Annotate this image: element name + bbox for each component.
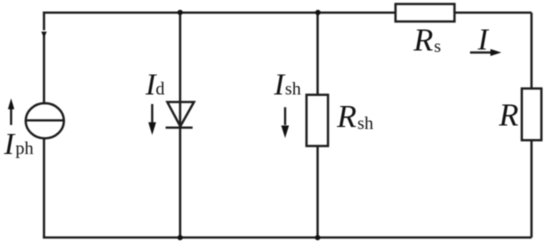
svg-text:sh: sh [285,79,301,99]
svg-text:d: d [156,79,165,99]
svg-text:R: R [413,21,434,57]
svg-text:R: R [336,98,357,134]
svg-text:ph: ph [16,138,34,158]
svg-text:s: s [434,36,441,56]
svg-text:sh: sh [357,113,373,133]
svg-text:I: I [3,126,16,161]
svg-text:R: R [498,97,519,133]
svg-text:I: I [477,21,490,56]
